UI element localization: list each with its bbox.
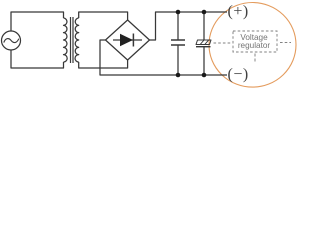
svg-text:(−): (−) bbox=[228, 66, 249, 83]
svg-text:regulator: regulator bbox=[238, 41, 271, 50]
svg-text:(+): (+) bbox=[228, 3, 249, 20]
